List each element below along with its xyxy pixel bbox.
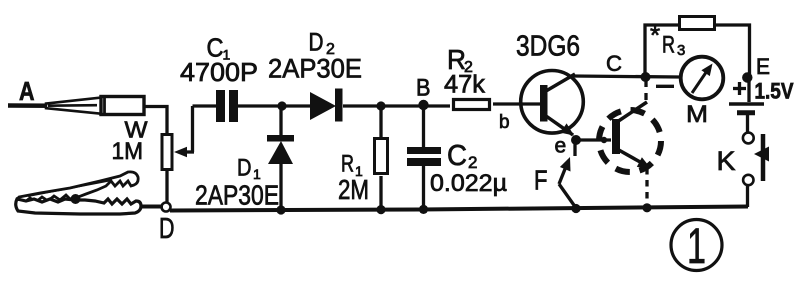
node B <box>418 100 428 110</box>
label plus <box>733 82 746 95</box>
capacitor C2 <box>407 105 441 214</box>
dashed wire node C to Q2 collector <box>644 80 647 103</box>
node junction at D1 top <box>277 101 286 110</box>
label R3 <box>650 20 685 59</box>
alligator clip <box>16 172 163 214</box>
resistor R2 <box>454 100 490 110</box>
resistor R1 <box>375 106 388 214</box>
svg-text:4700P: 4700P <box>180 57 258 87</box>
switch F <box>559 157 576 208</box>
svg-text:A: A <box>19 76 35 106</box>
wire e to Q2 base <box>575 138 611 141</box>
svg-text:D: D <box>159 213 175 245</box>
node E <box>742 72 752 82</box>
svg-text:2AP30E: 2AP30E <box>268 54 362 84</box>
node junction Q2 bottom <box>642 203 651 212</box>
svg-text:D: D <box>309 29 324 57</box>
svg-text:R: R <box>662 32 675 59</box>
node C <box>641 72 651 82</box>
svg-text:C: C <box>606 51 622 76</box>
svg-text:e: e <box>555 134 567 157</box>
node junction at R1 top <box>376 101 385 110</box>
switch K <box>743 133 769 207</box>
label D1 <box>237 155 261 183</box>
svg-text:47k: 47k <box>444 71 486 99</box>
svg-text:0.022µ: 0.022µ <box>430 170 507 197</box>
svg-text:3: 3 <box>677 42 685 59</box>
diode D2 <box>310 89 343 122</box>
wire collector rail to node C <box>573 76 680 77</box>
capacitor C1 <box>216 90 238 122</box>
svg-text:3DG6: 3DG6 <box>516 31 580 63</box>
label R2 <box>447 44 473 76</box>
svg-text:*: * <box>650 20 660 50</box>
svg-text:D: D <box>237 155 252 182</box>
wire e stub down <box>573 140 576 156</box>
svg-text:b: b <box>499 112 510 133</box>
svg-text:K: K <box>717 146 736 176</box>
figure number 1 <box>671 218 722 274</box>
diode D1 <box>267 106 294 215</box>
svg-text:B: B <box>416 75 431 102</box>
bottom rail wire <box>170 207 748 211</box>
wire R2 to transistor base <box>493 102 520 105</box>
svg-text:1M: 1M <box>112 138 144 165</box>
probe A <box>8 97 144 115</box>
svg-text:F: F <box>534 165 548 196</box>
resistor R3 with loop wires <box>645 17 750 77</box>
label R1 <box>341 151 363 180</box>
svg-text:1: 1 <box>687 218 706 274</box>
node junction F bottom <box>571 204 580 213</box>
label C1 <box>207 33 231 63</box>
label D2 <box>309 29 336 59</box>
wire C1 to D2 <box>238 104 310 107</box>
transistor Q2 (dashed) <box>599 102 661 172</box>
svg-text:2AP30E: 2AP30E <box>195 180 279 211</box>
wire probe to potentiometer <box>144 107 167 135</box>
wire pot to node D <box>165 171 168 203</box>
wire D2 to R2 <box>343 104 450 107</box>
dashed wire Q2 emitter to bottom rail <box>645 168 648 206</box>
node e <box>571 135 581 145</box>
label C2 <box>447 140 477 172</box>
meter M <box>681 57 724 100</box>
svg-text:1.5V: 1.5V <box>755 79 794 104</box>
node D <box>162 203 171 212</box>
svg-text:C: C <box>447 140 467 172</box>
wire wiper to C1 <box>193 104 217 107</box>
potentiometer W <box>162 106 194 170</box>
svg-text:E: E <box>756 54 770 79</box>
transistor Q1 3DG6 <box>520 71 583 136</box>
svg-text:M: M <box>686 101 708 128</box>
battery 1.5V <box>729 77 764 133</box>
svg-text:2M: 2M <box>338 174 369 205</box>
label minus <box>656 85 674 88</box>
